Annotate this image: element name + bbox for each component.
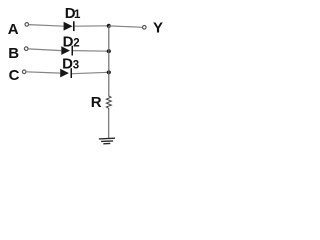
label D3	[62, 56, 79, 73]
svg-text:1: 1	[74, 9, 81, 21]
wire bus to Y	[109, 26, 143, 27]
bus wire vertical	[108, 26, 110, 97]
input terminal A	[25, 23, 29, 27]
svg-text:Y: Y	[153, 19, 163, 36]
ground	[99, 138, 115, 144]
junction dot row 1	[107, 24, 111, 28]
label D1	[65, 5, 81, 22]
svg-text:D: D	[62, 56, 73, 73]
output terminal Y	[143, 26, 147, 30]
wire B to D2	[28, 49, 61, 51]
svg-text:2: 2	[73, 37, 79, 49]
junction dot row 2	[107, 49, 111, 53]
diode D3	[60, 68, 72, 78]
wire D2 to bus	[73, 50, 109, 53]
svg-text:C: C	[9, 67, 20, 84]
resistor R	[106, 96, 111, 109]
wire resistor to ground	[108, 108, 110, 138]
svg-text:R: R	[91, 94, 102, 111]
input terminal C	[22, 70, 26, 74]
diode D2	[61, 46, 73, 56]
wire A to D1	[29, 25, 64, 27]
input terminal B	[24, 47, 28, 51]
wire D1 to bus	[74, 25, 108, 27]
svg-text:D: D	[63, 33, 74, 50]
wire D3 to bus	[72, 72, 109, 73]
diode D1	[64, 21, 75, 31]
wire C to D3	[26, 72, 60, 73]
svg-text:B: B	[8, 45, 19, 62]
junction dot row 3	[107, 70, 111, 74]
svg-text:3: 3	[73, 60, 79, 72]
label D2	[63, 33, 80, 50]
svg-text:A: A	[8, 21, 19, 38]
